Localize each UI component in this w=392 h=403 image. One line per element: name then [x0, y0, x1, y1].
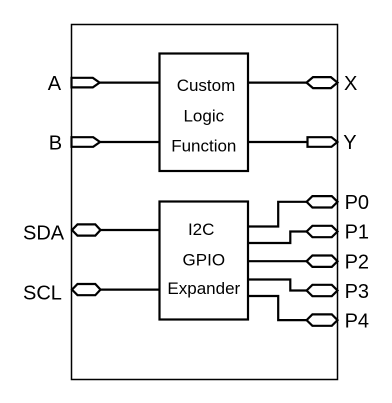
bidirectional pin SCL: [72, 284, 101, 295]
output pin Y: [308, 137, 338, 147]
wire B: [100, 141, 160, 143]
svg-text:P1: P1: [345, 222, 369, 244]
bidirectional pin P1: [307, 226, 338, 237]
wire P3: [248, 280, 307, 291]
input pin A: [72, 78, 100, 88]
bidirectional pin P0: [307, 196, 338, 207]
wire SCL: [101, 289, 160, 291]
svg-text:Expander: Expander: [167, 279, 240, 298]
svg-text:A: A: [48, 73, 62, 95]
svg-text:Function: Function: [171, 137, 236, 156]
wire P2: [248, 260, 307, 262]
svg-text:Custom: Custom: [177, 76, 236, 95]
wire P1: [248, 232, 307, 244]
output pin X: [307, 77, 338, 88]
svg-text:P3: P3: [345, 281, 369, 303]
block U2 I2C GPIO Expander: [160, 202, 249, 320]
svg-text:Y: Y: [343, 132, 356, 154]
wire SDA: [101, 229, 160, 231]
input pin B: [72, 137, 101, 147]
svg-text:SDA: SDA: [23, 223, 65, 245]
wire P0: [248, 202, 307, 227]
bidirectional pin SDA: [72, 224, 101, 235]
block U1 Custom Logic Function: [160, 54, 249, 172]
svg-text:Logic: Logic: [183, 107, 224, 126]
svg-text:I2C: I2C: [188, 220, 214, 239]
bidirectional pin P3: [307, 285, 338, 296]
svg-text:P4: P4: [345, 310, 369, 332]
svg-text:SCL: SCL: [23, 283, 62, 305]
svg-text:B: B: [49, 133, 62, 155]
chip boundary: [72, 25, 338, 380]
svg-text:P0: P0: [345, 192, 369, 214]
wire P4: [248, 296, 307, 320]
bidirectional pin P2: [307, 256, 338, 267]
wire A: [100, 81, 160, 83]
svg-text:GPIO: GPIO: [183, 251, 226, 270]
bidirectional pin P4: [307, 314, 338, 325]
wire Y: [248, 141, 308, 143]
wire X: [248, 81, 307, 83]
svg-text:P2: P2: [345, 251, 369, 273]
svg-text:X: X: [344, 73, 357, 95]
